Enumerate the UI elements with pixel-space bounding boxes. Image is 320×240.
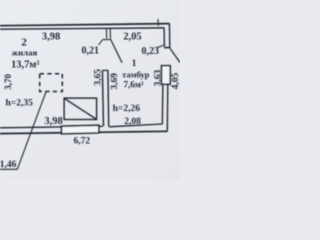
leader diagonal for 11,46 (17, 92, 46, 170)
svg-text:2,05: 2,05 (123, 32, 141, 43)
svg-text:h=2,35: h=2,35 (6, 99, 34, 109)
svg-text:3,70: 3,70 (3, 74, 13, 90)
living room bottom wall inner line (0, 126, 103, 128)
right wall inner line (161, 84, 164, 124)
niche dashed rectangle (40, 74, 63, 92)
wall top outer (0, 24, 169, 26)
leader line for 0,23 (157, 45, 164, 48)
paper background (0, 0, 180, 180)
svg-text:3,98: 3,98 (44, 116, 62, 127)
notch wall outer vertical (top right) (168, 24, 170, 49)
notch wall inner vertical (163, 28, 165, 46)
svg-text:3,63: 3,63 (154, 69, 164, 86)
wall top inner (0, 28, 164, 29)
svg-text:1: 1 (132, 59, 137, 69)
partition stub bottom cap (102, 39, 111, 41)
svg-text:жилая: жилая (12, 48, 38, 58)
svg-text:3,69: 3,69 (110, 73, 120, 90)
partition wall left line (102, 70, 103, 126)
svg-text:0,23: 0,23 (142, 46, 160, 57)
svg-text:6,72: 6,72 (73, 136, 90, 146)
window W2 in bottom wall (62, 125, 99, 134)
svg-text:h=2,26: h=2,26 (113, 104, 141, 114)
partition wall right line (107, 70, 110, 126)
svg-text:13,7м²: 13,7м² (11, 60, 39, 71)
svg-text:4,05: 4,05 (171, 72, 180, 89)
notch bottom cap (164, 47, 171, 49)
svg-text:3,98: 3,98 (42, 32, 60, 43)
building bottom outer line (0, 131, 168, 133)
leader shelf for 11,46 (0, 168, 17, 170)
tambour bottom wall inner line (109, 124, 163, 127)
room door leaf (111, 39, 122, 63)
leader line for 0,21 (99, 40, 103, 45)
svg-text:7,6м²: 7,6м² (123, 79, 143, 89)
partition wall top cap (102, 69, 108, 71)
svg-text:3,65: 3,65 (94, 69, 104, 86)
svg-text:2,08: 2,08 (124, 117, 141, 127)
tick on top wall (157, 19, 159, 26)
partition stub left line (106, 29, 108, 39)
window W1 in right wall (162, 66, 171, 85)
svg-text:0,21: 0,21 (81, 45, 99, 56)
entrance door leaf (170, 49, 180, 63)
svg-text:1,46: 1,46 (0, 160, 17, 170)
svg-text:тамбур: тамбур (122, 69, 149, 79)
right wall outer line (166, 84, 169, 131)
partition stub right line (109, 29, 111, 39)
stove diagonal (64, 98, 96, 119)
stove rectangle (64, 98, 97, 119)
